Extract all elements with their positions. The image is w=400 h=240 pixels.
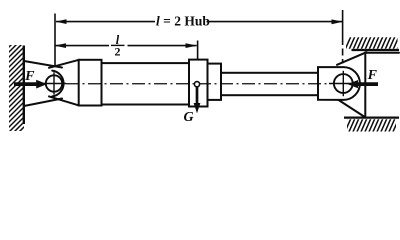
svg-text:G: G <box>183 110 193 125</box>
svg-text:l = 2 Hub: l = 2 Hub <box>156 14 210 29</box>
svg-text:F: F <box>24 69 35 84</box>
svg-text:F: F <box>367 68 378 83</box>
svg-text:2: 2 <box>115 44 121 58</box>
